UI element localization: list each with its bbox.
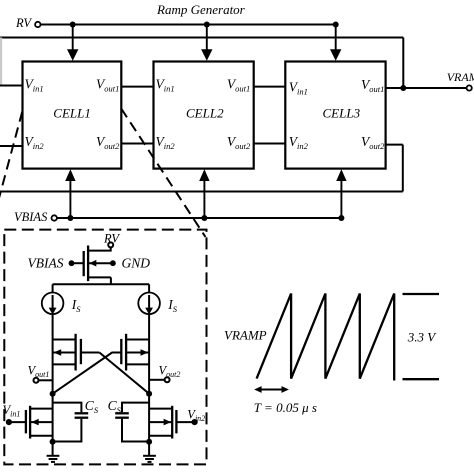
- svg-text:Vout2: Vout2: [361, 134, 385, 151]
- svg-text:Vin1: Vin1: [156, 77, 175, 94]
- svg-text:VBIAS: VBIAS: [14, 210, 48, 224]
- svg-text:T = 0.05 μ s: T = 0.05 μ s: [254, 400, 317, 415]
- svg-text:VRAMP: VRAMP: [447, 70, 474, 84]
- svg-text:Vout2: Vout2: [227, 134, 251, 151]
- svg-text:Vin1: Vin1: [3, 403, 21, 419]
- svg-text:Vout2: Vout2: [96, 134, 120, 151]
- svg-text:Vin2: Vin2: [187, 408, 205, 424]
- svg-text:GND: GND: [122, 256, 151, 271]
- svg-text:Vout1: Vout1: [361, 77, 384, 94]
- svg-text:CELL2: CELL2: [186, 106, 224, 121]
- svg-text:Vout2: Vout2: [159, 364, 181, 380]
- svg-text:Vin1: Vin1: [289, 80, 308, 97]
- svg-text:Vin2: Vin2: [156, 134, 176, 151]
- svg-text:Vin1: Vin1: [25, 77, 44, 94]
- svg-text:3.3 V: 3.3 V: [407, 330, 438, 345]
- svg-text:Vout1: Vout1: [28, 364, 50, 380]
- svg-text:CELL1: CELL1: [53, 106, 91, 121]
- svg-text:RV: RV: [15, 16, 32, 30]
- svg-text:Vin2: Vin2: [289, 134, 309, 151]
- svg-text:CELL3: CELL3: [323, 106, 361, 121]
- svg-text:VRAMP: VRAMP: [224, 328, 267, 343]
- svg-text:Vout1: Vout1: [96, 77, 119, 94]
- svg-text:Vin2: Vin2: [25, 134, 45, 151]
- svg-text:VBIAS: VBIAS: [28, 256, 64, 271]
- svg-text:IS: IS: [71, 297, 82, 314]
- svg-text:CS: CS: [85, 398, 99, 415]
- svg-text:IS: IS: [167, 297, 178, 314]
- svg-text:Ramp Generator: Ramp Generator: [156, 2, 246, 17]
- svg-text:Vout1: Vout1: [227, 77, 250, 94]
- svg-text:RV: RV: [103, 232, 120, 246]
- svg-text:CS: CS: [108, 398, 122, 415]
